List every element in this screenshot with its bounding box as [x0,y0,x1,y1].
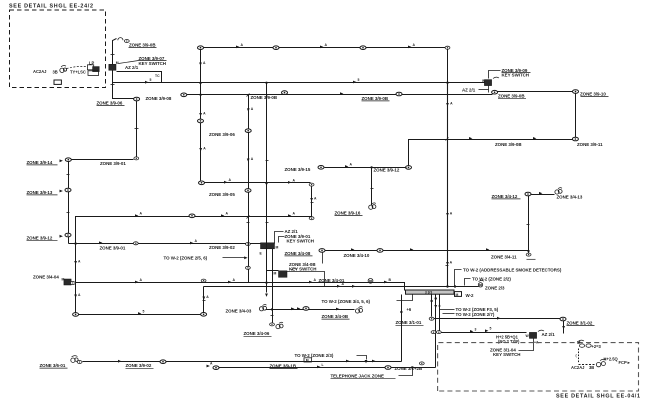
detector 3/4-03 [259,304,266,310]
junction H20-V21 [370,166,372,168]
leader TO W-2 [223,257,245,259]
node V2 bottom [134,157,139,160]
arrow H7 b [410,248,413,251]
wire H2 [113,82,487,84]
svg-text:ZONE 3/9-0B: ZONE 3/9-0B [251,95,278,100]
ks 3/1 drop [519,339,534,351]
node V5 bottom [199,181,205,185]
arrow H9b a [337,285,340,288]
tick node H9a [202,278,204,280]
svg-text:ZONE 3/4-08: ZONE 3/4-08 [285,251,311,256]
junction V5-H3 [199,94,201,96]
node 3/4-12 [525,192,531,196]
arrow H19 a [291,307,294,310]
arrow H5 a [99,241,102,244]
node 3/4-08 [319,249,325,253]
key switch AZ 2/1 on V1 [109,64,116,70]
tick V3 [67,174,70,176]
zone 3/6-01 device [71,356,78,363]
tick V9 [527,224,530,226]
node H1 right [445,46,450,49]
arrow H10 a [469,137,472,140]
box2 bell pair [596,359,606,367]
arrow H6 b [288,181,291,184]
svg-text:M: M [62,278,65,282]
tick V3 lower [67,212,70,214]
svg-text:(NO.2 TYP): (NO.2 TYP) [498,339,520,344]
svg-text:ZONE 3/9-01: ZONE 3/9-01 [100,245,126,250]
box2 dashes [579,364,595,366]
node V5 top [198,46,204,50]
arrow V8 stub [265,294,268,297]
arrow V10 a [446,103,449,106]
svg-text:M: M [274,271,277,275]
arrow H13 b [346,360,349,363]
arrow V4 b [74,295,77,298]
tick V1 lower [111,84,115,86]
detector 3/4-13 [555,188,562,194]
terminal cabinet symbol in box1 [88,65,100,76]
arrow V7 a [247,108,250,111]
arrow H9a a [135,281,138,284]
svg-text:ZONE 3/6-01: ZONE 3/6-01 [40,363,66,368]
wire V26 [563,321,565,334]
arrow H19 b [297,307,300,310]
junction H9a-V8 [265,282,267,284]
wire H5 [69,243,263,245]
svg-text:ZONE 3/4-06: ZONE 3/4-06 [244,331,270,336]
junction H9b smoke leader [454,285,456,287]
wire V8 [266,83,268,283]
wire V20 [272,249,274,323]
svg-text:5: 5 [490,327,492,331]
svg-text:ZONE 3/1+2B: ZONE 3/1+2B [395,366,423,371]
svg-text:ZONE 3/9-15: ZONE 3/9-15 [285,167,311,172]
detector H19 end [355,307,362,313]
junction V7 node [246,266,251,269]
node H1 b [360,46,366,50]
wire V4 [75,244,77,313]
svg-text:ZONE 3/1-02: ZONE 3/1-02 [567,320,593,325]
node H4 [189,214,195,218]
wire V1 riser [113,39,134,99]
arrow H9b b [352,285,355,288]
wire V3 [68,162,70,244]
ks2 loop to H9b [287,272,325,287]
wire V2 [136,101,138,157]
leader 09 [489,71,501,79]
wire H13 [83,361,402,363]
arrow H1 b [320,46,323,49]
node H3 x284 [282,91,288,95]
node H1 a [273,46,279,50]
dot V24 [435,297,437,299]
svg-text:ZONE 2/3: ZONE 2/3 [485,286,505,291]
node V4 ks [70,282,75,285]
node H19 mid [303,307,309,311]
svg-text:3B: 3B [53,69,58,74]
curl 3/1 [538,330,544,331]
leader addressable [455,270,462,286]
wire V24 bus mid-b [435,295,437,368]
curl ks2 [291,269,297,270]
V8 feed to ks [267,270,279,272]
arrow H6 a [224,181,227,184]
key switch device 09 [484,80,491,86]
leader F3,5 [440,309,455,311]
svg-text:ZONE 3/9-0B: ZONE 3/9-0B [498,94,525,99]
svg-text:AZ 2/1: AZ 2/1 [462,87,476,92]
svg-text:ZONE 3/4-13: ZONE 3/4-13 [557,195,583,200]
W-2 panel bus [406,290,455,294]
svg-text:ZONE 3/4-12: ZONE 3/4-12 [492,194,518,199]
leader zone 2/2 [465,279,471,286]
svg-text:TC: TC [155,74,160,78]
tick V8 b [266,222,269,224]
wire H1 top [204,48,448,83]
node H14 right [560,317,566,321]
svg-text:TO W-2 (ZONE 2/2): TO W-2 (ZONE 2/2) [472,277,511,282]
wire H8 [531,194,555,196]
arrow H14 [497,317,500,320]
bell end H9b [478,280,484,287]
svg-text:ZONE 3/9-0B: ZONE 3/9-0B [129,42,156,47]
underline 3/9-07 leader [119,61,167,64]
node V7 a [245,129,251,133]
wire H19 [266,309,355,311]
detector H17 [419,362,424,365]
wire H3 [187,94,493,96]
az leader 09 [479,89,489,91]
node H15 b [436,331,441,334]
wire V7 [248,95,250,283]
node on V1 top [124,40,129,43]
arrow H1 c [408,46,411,49]
small device below in box1 [54,80,61,84]
tick H3 right [467,94,470,96]
tick V1 [111,54,115,56]
arrow H1 a [236,46,239,49]
node H5 [133,242,138,245]
svg-text:5: 5 [150,78,152,82]
detector V20 bottom [276,322,283,328]
svg-text:ZONE 3/9-0B: ZONE 3/9-0B [495,142,522,147]
tick V20 [271,315,274,317]
svg-text:ZONE 3/9-05: ZONE 3/9-05 [209,192,235,197]
svg-text:KEY SWITCH: KEY SWITCH [493,352,520,357]
svg-text:TO W-2 (ZONE 2/3): TO W-2 (ZONE 2/3) [295,353,334,358]
node V3 zone13 [65,188,71,192]
node H11 right [573,90,579,94]
bell top of V1 [118,38,123,41]
arrow V-drop [202,297,205,300]
arrow H9a b [228,281,231,284]
node V7 b [245,189,251,193]
wire V25 bus mid-c [439,295,441,333]
svg-text:AC2AJ: AC2AJ [571,365,584,370]
node H7 mid [377,249,383,253]
tick V6 [311,202,314,204]
leader bracket cluster2 [279,237,285,243]
node left of link [65,158,71,162]
arrow H10 b [533,137,536,140]
wire V23 bus mid-a [431,295,433,317]
arrow H19 c [336,308,339,311]
wire V10 main [447,83,449,287]
dot V23 [430,300,432,302]
wire V6 [311,187,313,217]
svg-text:ZONE 3/9-10: ZONE 3/9-10 [580,92,606,97]
leader 3/4,5,6 [397,295,413,301]
W-2 box [455,292,462,297]
arrow V5 b [199,113,202,116]
node H13 a [160,360,166,364]
tick V-drop [203,300,206,302]
tick V7 c [247,222,250,224]
arrow H3 a [340,92,343,95]
junction H2-V10 [446,82,448,84]
svg-text:M: M [116,61,119,65]
wire V21 [371,168,373,206]
svg-text:KEY SWITCH: KEY SWITCH [287,238,314,243]
node V4 bottom [73,313,79,317]
tick H3 at V7 [247,94,250,97]
junction H9b-V10 [446,285,448,287]
arrow H9a c [309,281,312,284]
svg-text:3: 3 [475,327,477,331]
wire H15 [434,332,527,334]
svg-text:ZONE 3/9-06: ZONE 3/9-06 [97,100,123,105]
svg-text:ZONE 3/9-0B: ZONE 3/9-0B [362,96,389,101]
bell node H9a [368,278,373,283]
tick V8 a [266,160,269,162]
wire H17 [219,367,436,369]
tick V12 [574,116,576,118]
node V5 mid [198,119,204,123]
arrow H17 left [207,365,210,368]
underline 3/9-0B [129,47,157,49]
key switch zone 3/1 [529,332,536,338]
wire H9a [76,283,405,291]
node V9 bottom [527,250,530,253]
wire V12 [575,93,577,138]
dot V22 [400,311,402,313]
svg-text:3B: 3B [589,365,594,370]
junction H2-V8 [265,82,267,84]
arrow H13 c [372,360,375,363]
leader telephone [399,368,413,376]
svg-text:AZ 2/1: AZ 2/1 [542,332,556,337]
wire H12 [79,314,201,316]
arrow H7 a [351,248,354,251]
node V11 bottom [406,166,412,170]
svg-text:TO W-2 (ZONE 3/4, 5, 6): TO W-2 (ZONE 3/4, 5, 6) [322,299,371,304]
arrow H7 c [486,248,489,251]
curl 09 [493,77,499,78]
arrow H4 a [135,214,138,217]
arrow H4 b [221,214,224,217]
tick H10 at V10 [446,138,449,141]
wire link row y159 [71,159,134,161]
node V3 zone12 [65,233,71,237]
node H3 left [181,93,187,97]
wire H9b [203,287,205,313]
svg-text:L: L [322,363,324,367]
box2 top cluster [577,340,602,349]
detail box EE-04/1 dashed border [438,343,639,391]
wire H6 [205,182,311,184]
node V20 bottom [270,323,275,326]
node H17 mid [385,366,391,370]
svg-text:ZONE 3/9-13: ZONE 3/9-13 [27,190,53,195]
svg-text:ZONE 3/4-0B: ZONE 3/4-0B [322,314,349,319]
svg-text:M: M [456,293,459,297]
svg-text:ZONE 3/1-01: ZONE 3/1-01 [396,320,422,325]
svg-text:M: M [306,359,309,363]
node 09 [492,90,498,94]
dashed leader in box1 [67,67,87,69]
svg-text:M: M [276,246,279,250]
svg-text:TO W-2 (ZONE 2/5, 6): TO W-2 (ZONE 2/5, 6) [164,255,208,260]
svg-text:ZONE 3/9-02: ZONE 3/9-02 [126,363,152,368]
wire H20 [325,167,407,169]
svg-text:ZONE 3/9-16: ZONE 3/9-16 [335,210,361,215]
junction V4-H5 [74,242,76,244]
arrow V5 c [199,148,202,151]
node V12 bottom [572,137,578,141]
junction H17 telephone [411,366,413,368]
wire H7 [325,250,529,252]
wire H4 long loop [76,217,312,244]
svg-text:ZONE 3/9-08: ZONE 3/9-08 [146,96,172,101]
svg-text:H+2.5Q: H+2.5Q [604,357,619,362]
svg-text:ZONE 3/9-02: ZONE 3/9-02 [209,245,235,250]
arrow V10 b [446,213,449,216]
svg-text:W-2: W-2 [466,293,475,298]
arrow H17 mid [317,366,320,369]
svg-text:TO W-2 (ADDRESSABLE SMOKE DETE: TO W-2 (ADDRESSABLE SMOKE DETECTORS) [463,267,562,272]
node 3/6-01 [77,361,82,364]
key switch end H5 [261,243,275,249]
svg-text:3 3/3: 3 3/3 [425,291,432,295]
svg-text:SEE DETAIL SHGL EE-04/1: SEE DETAIL SHGL EE-04/1 [556,393,641,399]
node H15 a [431,331,436,334]
svg-text:ZONE 3/4-11: ZONE 3/4-11 [491,254,517,259]
node H9a mid [201,279,206,282]
arrow H5 b [190,242,193,245]
arrow H4 c [288,214,291,217]
junction H6-V8 [265,182,267,184]
leader arrow [60,159,63,162]
svg-text:ZONE 3/9-01: ZONE 3/9-01 [100,161,126,166]
tick V10 [446,265,449,267]
arrow H9a d [384,281,387,284]
svg-text:FCP►: FCP► [619,360,631,365]
detail box EE-24/2 dashed border [10,10,106,88]
arrow V4 a [74,261,77,264]
node H12 right [201,313,207,317]
node H20 left [318,166,324,170]
arrow V5 a [199,63,202,66]
node H3 mid [396,92,402,96]
svg-text:ZONE 3/9-06: ZONE 3/9-06 [209,132,235,137]
device M on H13 [304,358,311,363]
arrow H2 a [145,81,148,84]
svg-text:ZONE 3/9-12: ZONE 3/9-12 [374,167,400,172]
node bottom of V1 [134,97,140,101]
wire H14 [432,318,561,320]
junction V5-H2 [199,82,201,84]
wire V22 bus left [401,295,403,362]
svg-text:TY+LSC: TY+LSC [70,70,86,75]
svg-text:ZONE 3/9-12: ZONE 3/9-12 [27,236,53,241]
svg-text:TO W-2 (ZONE 2/7): TO W-2 (ZONE 2/7) [456,312,495,317]
tick H4 at V7 [247,216,250,219]
node H17 left [213,366,219,370]
svg-text:SEE DETAIL SHGL EE-24/2: SEE DETAIL SHGL EE-24/2 [9,4,94,10]
svg-text:KEY SWITCH: KEY SWITCH [139,61,166,66]
svg-text:ZONE 3/9-11: ZONE 3/9-11 [577,142,603,147]
bell device in box1 [60,66,67,73]
svg-text:ZONE 3/4-03: ZONE 3/4-03 [226,308,252,313]
svg-text:ZONE 3/9-14: ZONE 3/9-14 [27,160,53,165]
drop from node [322,253,324,264]
node V6 bottom [309,217,314,220]
leader 2/7 [443,313,455,315]
junction V20-H19 [271,308,273,310]
leader TO zone 2/3 [357,356,367,360]
svg-text:AC2AJ: AC2AJ [33,69,46,74]
svg-text:+2=3: +2=3 [592,344,602,349]
arrow H13 a [118,360,121,363]
arrow V6 [310,198,313,201]
arrow H2 b [353,81,356,84]
leader arrowhead [244,256,247,259]
arrow H12 [138,312,141,315]
arrow V24 [434,305,437,308]
leader bracket cluster [275,232,284,244]
key switch device 2 [279,271,288,278]
V8 lower stub [266,283,268,293]
svg-text:AZ 2/1: AZ 2/1 [125,65,139,70]
arrow V10 c [446,262,449,265]
detector V21 bottom [369,203,376,209]
arrow V7 b [247,159,250,162]
svg-text:KEY SWITCH: KEY SWITCH [502,72,529,77]
junction V7-H5 node [246,243,251,246]
key switch loop wire [117,72,162,83]
arrow V26 [562,326,565,329]
tick V2 [135,128,139,130]
leader arrowhead 2/3 [365,360,368,363]
node H6 right [309,183,314,186]
box2 dotted drop [578,349,580,364]
key switch on V4 [64,279,71,285]
arrow H15 a [470,330,473,333]
svg-text:ZONE 3/4-04: ZONE 3/4-04 [33,275,59,280]
svg-text:TELEPHONE JACK ZONE: TELEPHONE JACK ZONE [331,374,384,379]
wire V9 [528,196,530,251]
arrow H15 b [485,329,488,332]
arrow H20 [345,165,348,168]
wire H10 [409,140,573,154]
node H14 left [429,317,434,320]
svg-text:ZONE 3/4-10: ZONE 3/4-10 [344,253,370,258]
wire V11 [408,154,410,166]
wire H11 [498,91,573,93]
ks 09 drop [488,86,490,93]
tick V21 [371,188,374,190]
